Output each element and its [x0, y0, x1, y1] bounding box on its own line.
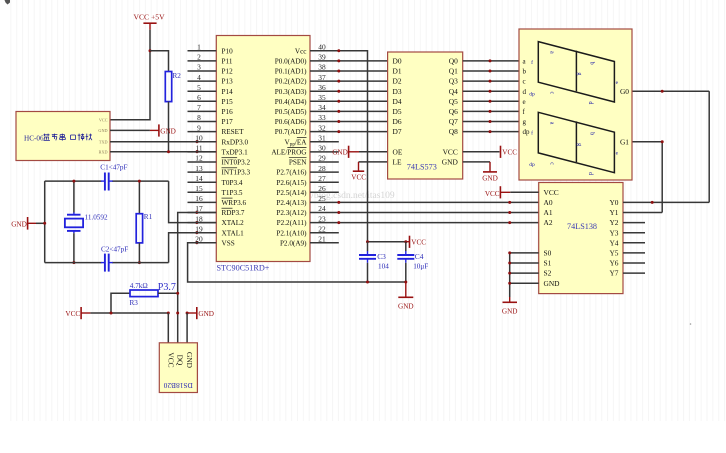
svg-text:XTAL2: XTAL2	[222, 219, 245, 227]
svg-text:RXD: RXD	[99, 149, 108, 154]
temperature sensor DS18B20	[159, 343, 197, 393]
svg-text:20: 20	[195, 235, 203, 244]
svg-text:a: a	[549, 51, 555, 54]
svg-text:a: a	[549, 122, 555, 125]
svg-text:f: f	[531, 130, 533, 137]
svg-text:c: c	[549, 162, 555, 165]
stray mark	[690, 323, 692, 325]
svg-text:P0.6(AD6): P0.6(AD6)	[275, 118, 307, 126]
svg-text:4.7kΩ: 4.7kΩ	[130, 282, 148, 290]
svg-text:35: 35	[318, 93, 326, 102]
svg-text:GND: GND	[98, 128, 107, 133]
svg-text:P2.2(A11): P2.2(A11)	[277, 219, 307, 227]
svg-text:P2.3(A12): P2.3(A12)	[276, 209, 307, 217]
svg-text:32: 32	[318, 123, 326, 132]
svg-text:STC90C51RD+: STC90C51RD+	[217, 264, 270, 273]
svg-text:VCC: VCC	[443, 148, 458, 157]
capacitor C2	[101, 245, 128, 271]
svg-text:XTAL1: XTAL1	[222, 229, 245, 237]
svg-text:P15: P15	[222, 98, 234, 106]
svg-text:38: 38	[318, 63, 326, 72]
wire HC-06 TXD to RxD/P3.0	[110, 141, 216, 143]
svg-text:INT0P3.2: INT0P3.2	[222, 159, 251, 167]
svg-text:11: 11	[195, 144, 202, 153]
svg-text:17: 17	[195, 204, 203, 213]
wire HC-06 RXD to TxD/P3.1	[110, 151, 216, 153]
svg-text:24: 24	[318, 204, 326, 213]
svg-text:Vpp/EA: Vpp/EA	[285, 138, 308, 147]
svg-text:VCC: VCC	[544, 188, 559, 197]
capacitor C1	[100, 163, 127, 190]
svg-text:VCC: VCC	[99, 117, 108, 122]
svg-text:Q3: Q3	[449, 77, 458, 86]
wire HC-06 GND	[110, 129, 150, 131]
svg-text:VCC +5V: VCC +5V	[134, 13, 166, 22]
svg-text:14: 14	[195, 174, 203, 183]
svg-text:30: 30	[318, 144, 326, 153]
svg-text:c: c	[523, 78, 526, 86]
svg-text:TxDP3.1: TxDP3.1	[222, 149, 249, 157]
svg-text:Y6: Y6	[609, 259, 618, 268]
capacitor C4 10uF	[397, 242, 428, 282]
svg-text:VCC: VCC	[65, 310, 80, 318]
svg-text:P2.0(A9): P2.0(A9)	[280, 239, 307, 247]
svg-text:P2.7(A16): P2.7(A16)	[276, 169, 307, 177]
wire crystal top rail	[45, 180, 169, 182]
svg-text:9: 9	[197, 123, 201, 132]
svg-text:10μF: 10μF	[413, 263, 428, 271]
svg-text:R2: R2	[173, 72, 182, 80]
svg-text:D1: D1	[393, 67, 402, 76]
dual 7-segment display DPY	[519, 29, 632, 180]
svg-text:P0.1(AD1): P0.1(AD1)	[275, 68, 307, 76]
svg-text:g: g	[523, 118, 527, 126]
junction dots serial wires	[167, 140, 199, 153]
svg-text:GND: GND	[11, 220, 27, 228]
svg-text:INT1P3.3: INT1P3.3	[222, 169, 251, 177]
svg-text:P0.3(AD3): P0.3(AD3)	[275, 88, 307, 96]
svg-text:Q5: Q5	[449, 97, 458, 106]
label P3.7	[158, 282, 176, 293]
wire DS18B20 GND lead	[186, 313, 188, 343]
svg-text:b: b	[588, 132, 594, 135]
wire Y0 to G0	[623, 90, 709, 204]
svg-text:DS18B20: DS18B20	[163, 381, 192, 390]
svg-text:Y0: Y0	[609, 198, 618, 207]
ground GND (C4)	[398, 282, 414, 311]
svg-text:P0.0(AD0): P0.0(AD0)	[275, 58, 307, 66]
wire Y2-Y7 stubs	[623, 223, 645, 274]
svg-text:Y7: Y7	[609, 269, 618, 278]
svg-text:VCC: VCC	[502, 149, 517, 157]
svg-text:27: 27	[318, 174, 326, 183]
svg-text:16: 16	[195, 194, 203, 203]
svg-text:Q8: Q8	[449, 127, 458, 136]
svg-text:P0.4(AD4): P0.4(AD4)	[275, 98, 307, 106]
svg-text:P12: P12	[222, 68, 234, 76]
wire Q outputs to display	[463, 59, 519, 133]
wire crystal bottom rail	[45, 262, 169, 264]
svg-text:36: 36	[318, 83, 326, 92]
svg-text:D2: D2	[393, 77, 402, 86]
svg-text:Q1: Q1	[449, 67, 458, 76]
wire LE to VCC	[359, 162, 388, 171]
svg-text:S0: S0	[544, 249, 552, 258]
svg-text:29: 29	[318, 154, 326, 163]
svg-text:C1<47pF: C1<47pF	[100, 163, 127, 171]
svg-text:11.0592: 11.0592	[85, 214, 108, 222]
svg-text:P14: P14	[222, 88, 234, 96]
svg-text:Vcc: Vcc	[295, 47, 307, 55]
crystal Y1 11.0592	[65, 181, 108, 263]
resistor R1	[136, 181, 152, 263]
svg-text:d: d	[587, 172, 593, 175]
svg-text:74LS138: 74LS138	[567, 222, 597, 231]
power VCC (LE)	[351, 171, 366, 181]
wire DS18B20 VCC lead	[167, 313, 169, 343]
latch U2 74LS573	[388, 52, 463, 179]
junction dots crystal rails	[72, 180, 140, 265]
power VCC (573)	[501, 146, 518, 158]
svg-text:Q4: Q4	[449, 87, 458, 96]
power VCC (138)	[485, 186, 510, 198]
junction dots XTAL	[195, 221, 198, 234]
svg-text:19: 19	[195, 224, 203, 233]
ground GND (OE)	[332, 146, 359, 158]
junction dots ground rail	[366, 281, 407, 284]
wire VCC node C3 C4	[366, 240, 407, 243]
svg-text:40: 40	[318, 43, 326, 52]
svg-text:31: 31	[318, 133, 326, 142]
svg-text:8: 8	[197, 113, 201, 122]
svg-text:b: b	[523, 68, 527, 76]
label 74LS573	[407, 162, 437, 171]
wire 138 VCC pin	[510, 191, 538, 193]
label 74LS138	[567, 222, 597, 231]
svg-text:D7: D7	[393, 127, 402, 136]
svg-text:P2.6(A15): P2.6(A15)	[276, 179, 307, 187]
MCU right pin stubs	[310, 43, 339, 244]
resistor R3 4.7k	[111, 282, 178, 313]
svg-text:b: b	[588, 62, 594, 65]
svg-text:104: 104	[378, 263, 389, 271]
svg-text:Q6: Q6	[449, 107, 458, 116]
svg-text:Q0: Q0	[449, 57, 458, 66]
svg-text:1: 1	[197, 43, 201, 52]
svg-text:P17: P17	[222, 118, 234, 126]
label STC90C51RD+	[217, 264, 270, 273]
wire XTAL1	[169, 233, 217, 263]
watermark	[306, 191, 395, 201]
svg-text:ALE/PROG: ALE/PROG	[271, 149, 306, 157]
svg-text:13: 13	[195, 164, 203, 173]
svg-text:Y1: Y1	[609, 208, 618, 217]
wire R2 to RXD net	[168, 102, 170, 152]
svg-text:3: 3	[197, 63, 201, 72]
ground GND (573)	[482, 172, 498, 183]
svg-text:R3: R3	[130, 299, 139, 307]
svg-text:22: 22	[318, 224, 326, 233]
svg-text:P3.7: P3.7	[158, 282, 176, 293]
wire VCC+5V to HC-06 VCC	[110, 30, 150, 120]
ground GND (crystal)	[11, 217, 46, 230]
svg-text:26: 26	[318, 184, 326, 193]
resistor R2	[165, 72, 181, 102]
svg-text:d: d	[523, 88, 527, 96]
decoder U3 74LS138	[539, 183, 623, 294]
svg-text:P13: P13	[222, 78, 234, 86]
svg-text:25: 25	[318, 194, 326, 203]
ground GND (HC-06)	[150, 124, 176, 136]
wire A1 net P2.4	[337, 211, 538, 214]
power VCC (sensor rail)	[65, 307, 90, 319]
svg-text:P10: P10	[222, 47, 234, 55]
svg-text:VCC: VCC	[351, 173, 366, 181]
junction dots sensor rail	[110, 292, 189, 315]
svg-text:18: 18	[195, 214, 203, 223]
svg-text:dp: dp	[523, 128, 531, 136]
svg-text:GND: GND	[544, 279, 561, 288]
svg-text:G0: G0	[620, 87, 629, 96]
wire XTAL2	[169, 181, 217, 223]
ground GND (138)	[502, 297, 518, 316]
svg-text:37: 37	[318, 73, 326, 82]
wire crystal left rail	[44, 181, 46, 263]
svg-text:GND: GND	[482, 175, 498, 183]
ground GND (DS18B20)	[187, 307, 214, 319]
svg-text:dp: dp	[529, 162, 535, 168]
svg-text:S1: S1	[544, 259, 552, 268]
svg-text:f: f	[531, 59, 533, 66]
svg-text:D4: D4	[393, 97, 402, 106]
power VCC +5V	[134, 13, 166, 30]
svg-text:GND: GND	[398, 303, 414, 311]
svg-text:2: 2	[197, 53, 201, 62]
svg-text:D0: D0	[393, 57, 402, 66]
svg-text:5: 5	[197, 83, 201, 92]
svg-text:D3: D3	[393, 87, 402, 96]
wire A0 net P2.5	[337, 201, 538, 204]
svg-text:LE: LE	[393, 158, 403, 167]
svg-text:WRP3.6: WRP3.6	[222, 199, 247, 207]
svg-text:28: 28	[318, 164, 326, 173]
svg-text:e: e	[523, 98, 526, 106]
svg-text:GND: GND	[442, 158, 459, 167]
MCU left pin stubs	[188, 43, 217, 244]
svg-text:C3: C3	[377, 252, 386, 261]
svg-text:GND: GND	[502, 308, 518, 316]
svg-text:Y2: Y2	[609, 218, 618, 227]
svg-text:Y4: Y4	[609, 238, 618, 247]
wire 573 VCC pin	[463, 151, 500, 153]
svg-text:Y5: Y5	[609, 249, 618, 258]
svg-text:10: 10	[195, 133, 203, 142]
svg-text:VCC: VCC	[411, 238, 426, 246]
svg-text:GND: GND	[160, 127, 176, 135]
svg-text:GND: GND	[198, 310, 214, 318]
wire 573 GND pin	[463, 162, 490, 172]
svg-text:P0.7(AD7): P0.7(AD7)	[275, 128, 307, 136]
svg-text:RxDP3.0: RxDP3.0	[222, 138, 249, 146]
svg-text:VSS: VSS	[222, 239, 235, 247]
svg-text:12: 12	[195, 154, 203, 163]
svg-text:S2: S2	[544, 269, 552, 278]
svg-text:74LS573: 74LS573	[407, 162, 437, 171]
svg-text:A1: A1	[544, 208, 553, 217]
svg-text:T1P3.5: T1P3.5	[222, 189, 243, 197]
svg-text:34: 34	[318, 103, 326, 112]
svg-text:P2.4(A13): P2.4(A13)	[276, 199, 307, 207]
svg-text:P0.5(AD5): P0.5(AD5)	[275, 108, 307, 116]
svg-text:RESET: RESET	[222, 128, 245, 136]
capacitor C3 104	[359, 242, 389, 282]
wire Y1 to G1	[623, 140, 664, 212]
wire A2 net P2.3	[337, 221, 538, 224]
wire Vcc pin40 bus	[337, 49, 367, 241]
microcontroller U1 STC90C51RD+	[216, 36, 310, 262]
wire VCC rail to DS18B20	[90, 312, 168, 314]
svg-text:4: 4	[197, 73, 201, 82]
svg-text:R1: R1	[144, 213, 153, 221]
svg-text:33: 33	[318, 113, 326, 122]
svg-text:21: 21	[318, 235, 326, 244]
svg-text:P2.1(A10): P2.1(A10)	[276, 229, 307, 237]
svg-text:T0P3.4: T0P3.4	[222, 179, 243, 187]
svg-text:6: 6	[197, 93, 201, 102]
svg-text:TXD: TXD	[99, 139, 108, 144]
svg-text:P0.2(AD2): P0.2(AD2)	[275, 78, 307, 86]
node R2 branch	[149, 49, 152, 52]
svg-text:dp: dp	[529, 91, 535, 97]
svg-text:GND: GND	[332, 149, 348, 157]
svg-text:Y3: Y3	[609, 228, 618, 237]
svg-text:OE: OE	[393, 148, 403, 157]
svg-text:D6: D6	[393, 117, 402, 126]
svg-text:Q7: Q7	[449, 117, 458, 126]
svg-text:39: 39	[318, 53, 326, 62]
svg-text:RDP3.7: RDP3.7	[222, 209, 245, 217]
svg-text:DQ: DQ	[176, 355, 185, 366]
svg-text:D5: D5	[393, 107, 402, 116]
svg-text:C2<47pF: C2<47pF	[101, 245, 128, 253]
svg-text:HC-06: HC-06	[24, 135, 44, 143]
wire OE to ground	[359, 151, 388, 153]
svg-text:GND: GND	[185, 352, 194, 369]
svg-text:G1: G1	[620, 137, 629, 146]
HC-06 bluetooth module	[16, 112, 110, 161]
svg-text:P11: P11	[222, 58, 233, 66]
svg-text:23: 23	[318, 214, 326, 223]
svg-text:c: c	[549, 92, 555, 95]
power VCC (decoupling)	[406, 236, 426, 248]
wire P3.7 to DS18B20 DQ	[178, 211, 217, 343]
corner mark	[5, 0, 11, 5]
svg-text:g: g	[576, 143, 582, 146]
svg-text:C4: C4	[415, 252, 424, 261]
svg-text:VCC: VCC	[485, 190, 500, 198]
svg-text:PSEN: PSEN	[289, 159, 307, 167]
svg-text:A0: A0	[544, 198, 553, 207]
wire VCC branch to R2	[150, 51, 169, 72]
svg-text:15: 15	[195, 184, 203, 193]
svg-text:d: d	[587, 101, 593, 104]
wire S0 S1 S2 GND chain	[508, 251, 539, 297]
svg-text:7: 7	[197, 103, 201, 112]
wire P0 data bus to 74LS573	[337, 59, 387, 133]
svg-text:A2: A2	[544, 218, 553, 227]
svg-text:P2.5(A14): P2.5(A14)	[276, 189, 307, 197]
svg-text:P16: P16	[222, 108, 234, 116]
svg-text:VCC: VCC	[166, 352, 175, 367]
svg-text:g: g	[576, 72, 582, 75]
wire VSS to ground rail	[188, 241, 406, 282]
